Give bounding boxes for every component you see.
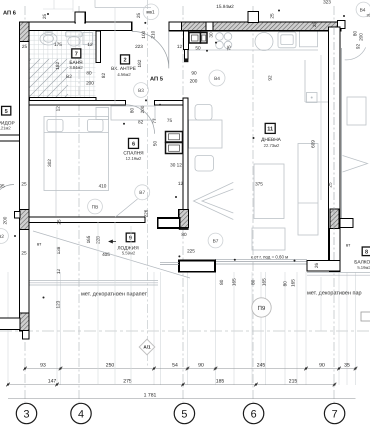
svg-text:200: 200: [86, 81, 94, 86]
grid bubble 5: [174, 403, 194, 423]
svg-text:5: 5: [5, 109, 8, 115]
svg-text:5.19м2: 5.19м2: [357, 265, 370, 270]
svg-text:25: 25: [312, 22, 317, 28]
living room chair 2: [195, 156, 214, 172]
svg-text:мв1: мв1: [146, 10, 155, 15]
grid bubble 6: [243, 403, 263, 423]
label circle В7: [208, 233, 223, 248]
svg-text:405: 405: [102, 252, 110, 257]
bedroom nightstand: [96, 108, 109, 120]
svg-text:8: 8: [365, 249, 368, 255]
bathroom sink: [40, 33, 57, 45]
svg-text:50: 50: [153, 141, 158, 147]
bed pillow right: [88, 120, 104, 132]
wall: bedroom bottom band: [29, 217, 145, 223]
svg-text:5.21м2: 5.21м2: [0, 126, 11, 131]
kitchen appliance boxes: [189, 33, 201, 44]
svg-text:30 12: 30 12: [170, 162, 182, 167]
dim text мв1: [143, 4, 159, 20]
wall: top band hatched segment 2: [213, 22, 341, 31]
svg-text:302: 302: [47, 159, 52, 167]
right wall step: [307, 261, 340, 272]
kitchen hob burners: [216, 33, 224, 41]
construction drop lines to dimension rows: [7, 272, 9, 385]
svg-text:25: 25: [328, 182, 333, 188]
label circle В4: [209, 70, 225, 86]
svg-text:410: 410: [99, 183, 107, 188]
room box 8: [362, 247, 370, 256]
loggia slope diagonal: [33, 231, 190, 278]
svg-text:6: 6: [132, 142, 135, 148]
right wall tab: [340, 219, 353, 228]
living room corner seat chevron: [194, 182, 234, 219]
entry door arc: [132, 31, 169, 68]
bathroom floor tile grid: [30, 31, 96, 98]
loggia right parapet lines: [215, 259, 307, 264]
svg-text:225: 225: [187, 248, 195, 253]
wall: top band chimney bump: [248, 12, 259, 23]
svg-text:к от г. под = 0.60 м: к от г. под = 0.60 м: [251, 255, 288, 260]
bathroom shower diagonal hatch: [30, 59, 69, 98]
wall: bottom-left stub: [0, 318, 20, 330]
kitchen round fixture: [255, 33, 273, 51]
svg-text:82: 82: [138, 120, 144, 125]
room box 2: [121, 55, 130, 64]
svg-text:80: 80: [130, 108, 135, 114]
divider pier black cap: [179, 228, 189, 230]
room box 5: [2, 106, 11, 115]
label circle В2: [0, 229, 8, 244]
wall: top band right end cap: [338, 21, 346, 29]
svg-text:4.56м2: 4.56м2: [117, 72, 131, 77]
kitchen stub black foot: [184, 59, 188, 62]
neighbor door arc top right: [345, 47, 366, 59]
svg-text:30: 30: [209, 32, 214, 38]
bottom right clipped box: [361, 312, 370, 321]
kitchen counter edge: [188, 49, 318, 51]
svg-text:25: 25: [136, 13, 141, 19]
door arc bedroom: [126, 105, 155, 134]
svg-text:200: 200: [2, 216, 7, 224]
left wall hatch top: [20, 22, 30, 42]
svg-text:80: 80: [353, 31, 358, 37]
svg-text:165: 165: [261, 278, 266, 286]
label circle В3: [134, 83, 149, 98]
grid bubble 3: [16, 403, 36, 423]
svg-text:АП 6: АП 6: [3, 11, 16, 17]
svg-text:25: 25: [22, 44, 28, 49]
svg-text:В2: В2: [66, 74, 72, 80]
svg-text:92: 92: [356, 44, 361, 50]
svg-text:226: 226: [144, 209, 149, 217]
living room rect B: [252, 228, 285, 250]
loggia left parapet lines: [27, 281, 158, 286]
svg-text:12: 12: [177, 44, 183, 49]
svg-text:92: 92: [268, 75, 273, 81]
svg-text:123: 123: [56, 300, 61, 308]
svg-text:мет. декоративен пар: мет. декоративен пар: [307, 291, 362, 297]
svg-text:147: 147: [48, 378, 57, 384]
loggia arrow: [109, 240, 116, 243]
svg-text:223: 223: [135, 44, 143, 49]
svg-text:2: 2: [123, 58, 126, 64]
room box 7: [72, 49, 81, 58]
svg-text:80: 80: [86, 70, 92, 75]
svg-text:1 781: 1 781: [144, 392, 157, 398]
svg-text:25: 25: [21, 251, 27, 256]
svg-text:9: 9: [129, 236, 132, 242]
svg-text:185: 185: [216, 378, 225, 384]
svg-text:вт: вт: [346, 243, 350, 248]
svg-text:250: 250: [106, 362, 115, 368]
svg-text:6: 6: [251, 408, 257, 420]
wall stub left edge corridor: [0, 135, 20, 141]
svg-text:А/1: А/1: [143, 345, 151, 350]
svg-text:165: 165: [232, 278, 237, 286]
right wall lower part: [330, 229, 341, 272]
svg-text:7: 7: [75, 52, 78, 58]
room box 9: [126, 233, 135, 242]
neighbor apartment furniture right: [347, 97, 366, 125]
svg-text:100: 100: [141, 30, 146, 38]
kitchen sink: [278, 32, 296, 48]
svg-text:80: 80: [181, 232, 187, 237]
wall: top band right white pier: [169, 22, 182, 31]
svg-text:В4: В4: [360, 8, 366, 14]
parapet window planter box: [179, 261, 215, 272]
wall: bedroom top wall right piece: [155, 101, 189, 106]
svg-text:50: 50: [195, 45, 201, 50]
svg-text:54: 54: [172, 362, 178, 368]
wall: bedroom top wall: [29, 101, 126, 106]
П9 circle: [252, 298, 271, 317]
svg-text:90: 90: [191, 71, 197, 76]
svg-text:3.84м2: 3.84м2: [69, 65, 83, 70]
loggia window (thick): [158, 218, 180, 228]
divider wall hatched pier: [179, 210, 189, 228]
room box 11: [265, 123, 275, 133]
right wall hatch: [330, 209, 339, 229]
svg-text:80: 80: [283, 281, 288, 287]
svg-text:В4: В4: [214, 76, 220, 82]
svg-text:80: 80: [250, 279, 255, 285]
wall: top band white pier 2: [206, 22, 213, 31]
bedroom wardrobe boxes: [166, 132, 183, 143]
room box 6: [129, 138, 139, 148]
svg-text:95: 95: [0, 184, 5, 189]
svg-text:210: 210: [151, 30, 156, 38]
svg-text:200: 200: [140, 105, 145, 113]
label circle ПВ: [88, 199, 103, 214]
svg-text:ПВ: ПВ: [92, 204, 99, 210]
svg-text:165: 165: [86, 235, 91, 243]
svg-text:75: 75: [227, 45, 232, 51]
svg-text:375: 375: [255, 182, 263, 187]
svg-text:35: 35: [344, 362, 350, 368]
wall: top band hatched segment 1: [182, 22, 207, 31]
horizontal boundary dashed line: [0, 330, 370, 332]
svg-text:АП 5: АП 5: [150, 77, 163, 83]
svg-text:П9: П9: [258, 305, 266, 312]
dimension row 2: [8, 384, 335, 386]
living room side table D: [307, 93, 318, 103]
svg-text:90: 90: [198, 362, 204, 368]
svg-text:182: 182: [55, 62, 60, 70]
svg-text:мет. декоративен парапет: мет. декоративен парапет: [81, 292, 147, 298]
grid bubble 4: [71, 403, 91, 423]
right wall centerline: [333, 27, 335, 260]
svg-text:3: 3: [23, 408, 29, 420]
svg-text:200: 200: [190, 78, 198, 83]
svg-text:5.59м2: 5.59м2: [122, 251, 136, 256]
svg-text:215: 215: [289, 378, 298, 384]
dimension row 3: [8, 398, 356, 400]
wall: kitchen stub: [184, 31, 189, 50]
living room sofa right C: [298, 144, 318, 236]
label circle В4 top right: [356, 2, 370, 17]
svg-text:12: 12: [87, 42, 93, 47]
svg-text:В7: В7: [139, 190, 145, 196]
dimension oblique ticks: [6, 367, 357, 387]
living room chair 1: [195, 105, 212, 121]
svg-text:90: 90: [319, 362, 325, 368]
door arc corridor left edge: [0, 185, 14, 207]
svg-text:26: 26: [314, 263, 319, 269]
wall: right exterior wall: [329, 27, 341, 261]
svg-text:165: 165: [291, 279, 296, 287]
grid bubble 7: [324, 403, 344, 423]
svg-text:25: 25: [42, 14, 47, 20]
living room sofa rect A: [254, 164, 284, 219]
wall: top band over bathroom and hall: [29, 22, 132, 31]
svg-text:323: 323: [323, 0, 331, 5]
wall: bathroom right wall: [96, 31, 101, 63]
wall: divider bedroom/living: [183, 98, 188, 210]
bed pillow left: [47, 120, 63, 132]
living room table: [189, 120, 223, 148]
axis A/1 vertical line: [147, 0, 149, 368]
kitchen fridge: [300, 31, 318, 47]
svg-text:В7: В7: [213, 238, 219, 244]
left wall hatch middle: [20, 210, 30, 230]
left wall hatch bottom: [20, 313, 30, 331]
svg-text:182: 182: [137, 59, 142, 67]
wall: bathroom bottom: [30, 98, 97, 101]
bedroom bed: [44, 117, 109, 191]
svg-text:4: 4: [78, 408, 84, 420]
svg-text:200: 200: [359, 33, 364, 41]
left bottom tick: [23, 331, 30, 340]
svg-text:В2: В2: [0, 234, 4, 240]
svg-text:609: 609: [311, 140, 316, 148]
svg-text:15.84м2: 15.84м2: [216, 4, 234, 9]
wall bump top-left: [75, 12, 85, 23]
svg-text:80: 80: [219, 279, 224, 285]
svg-text:25: 25: [21, 182, 27, 187]
svg-text:12.19м2: 12.19м2: [126, 156, 142, 161]
svg-text:25: 25: [57, 219, 62, 225]
svg-text:275: 275: [123, 378, 132, 384]
svg-text:5: 5: [181, 408, 187, 420]
svg-text:12: 12: [178, 181, 184, 186]
axis marker A/1: [139, 339, 155, 355]
svg-text:82: 82: [101, 73, 106, 79]
svg-text:вт: вт: [37, 242, 41, 247]
svg-text:22.73м2: 22.73м2: [264, 143, 280, 148]
svg-text:175: 175: [54, 42, 62, 47]
wall: left exterior wall: [20, 22, 30, 331]
svg-text:77: 77: [152, 118, 157, 124]
door frame tab left: [15, 212, 21, 219]
balcony right parapet lines: [307, 273, 370, 276]
label circle В7: [135, 185, 150, 200]
svg-text:В3: В3: [138, 88, 144, 94]
svg-text:35: 35: [367, 14, 370, 18]
svg-text:75: 75: [167, 118, 173, 123]
svg-text:7: 7: [332, 408, 338, 420]
svg-text:11: 11: [267, 127, 273, 133]
bathroom toilet: [66, 32, 83, 37]
svg-text:245: 245: [257, 362, 266, 368]
bedroom 302 dim line: [55, 107, 57, 216]
small dots: [43, 10, 346, 299]
bathroom washing machine: [83, 33, 93, 45]
upper corridor light outline: [95, 7, 151, 9]
dimension row 1: [25, 368, 356, 370]
svg-text:25: 25: [270, 13, 275, 19]
grid axis lines (dash-dot): [24, 6, 26, 404]
svg-text:93: 93: [40, 362, 46, 368]
